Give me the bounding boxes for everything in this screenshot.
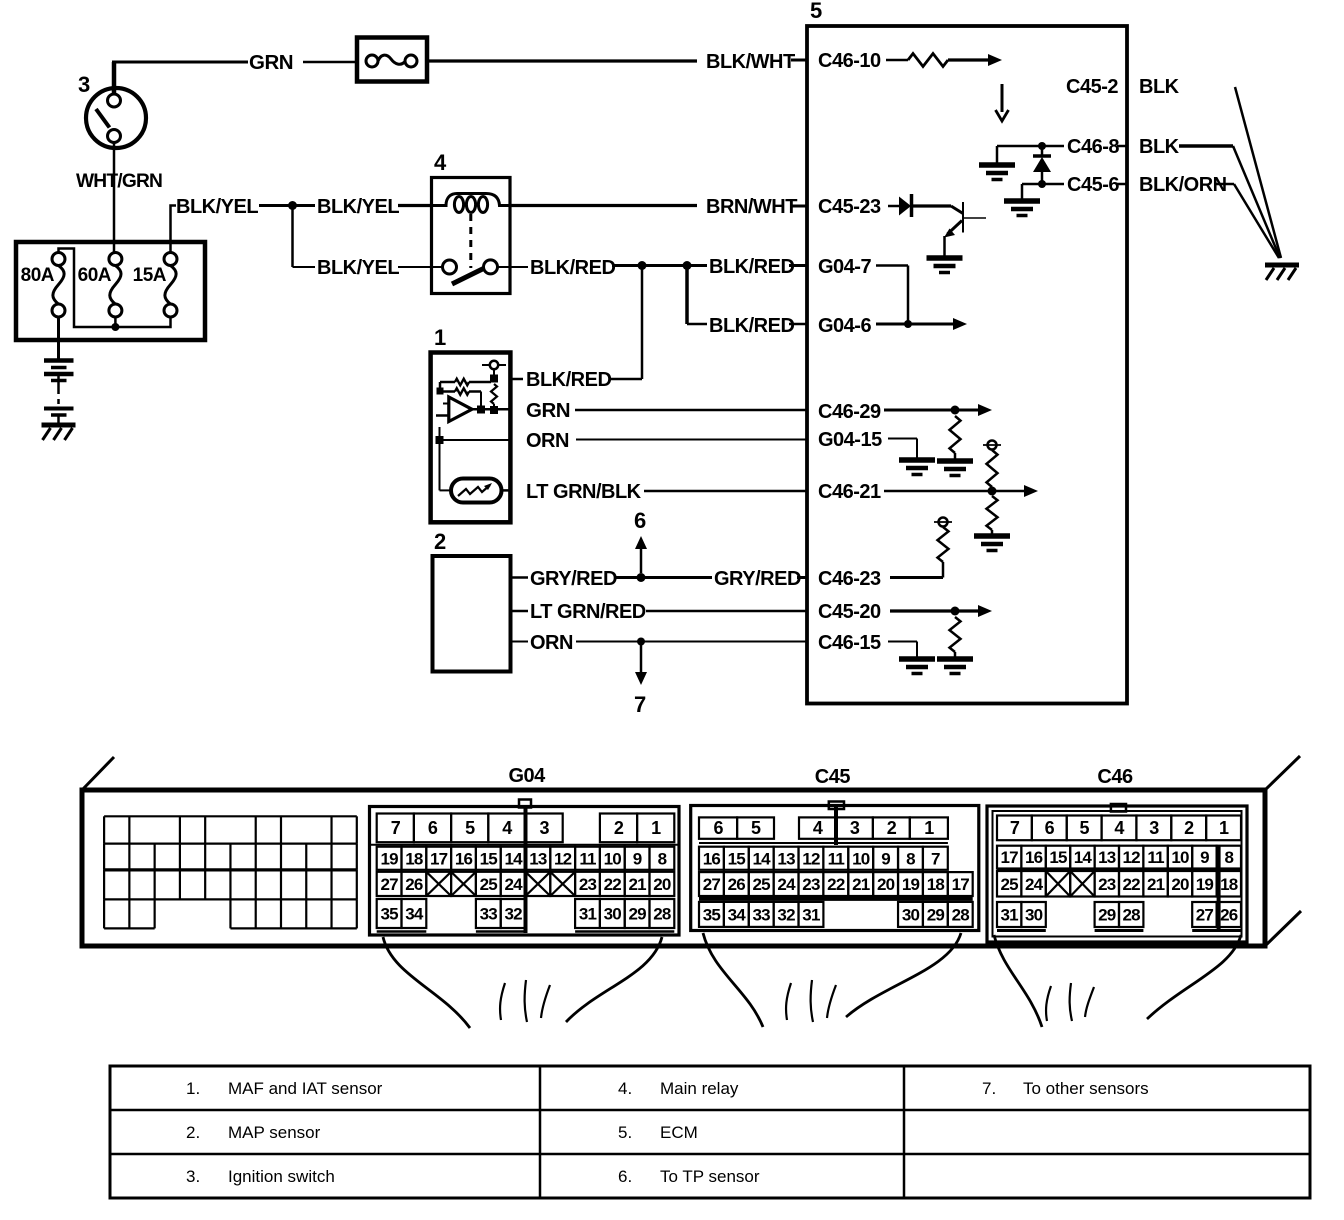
ground under transistor [927, 255, 963, 261]
svg-text:C45-20: C45-20 [818, 601, 881, 623]
svg-text:27: 27 [703, 875, 721, 894]
svg-text:C46-10: C46-10 [818, 50, 881, 72]
svg-text:13: 13 [777, 849, 795, 868]
housing corner bottom-right [1265, 911, 1301, 946]
ground below battery [42, 423, 76, 428]
svg-text:22: 22 [604, 875, 622, 894]
wire GRN to fuse [303, 61, 357, 64]
svg-text:C46-29: C46-29 [818, 401, 881, 423]
svg-text:BLK/RED: BLK/RED [709, 256, 794, 278]
svg-text:17: 17 [430, 849, 448, 868]
svg-text:25: 25 [753, 875, 771, 894]
svg-text:7: 7 [391, 818, 401, 838]
svg-text:15: 15 [480, 849, 498, 868]
svg-text:19: 19 [1196, 875, 1214, 894]
MAF internal supply node [490, 375, 498, 383]
svg-text:30: 30 [1025, 906, 1043, 925]
transistor Q1 [951, 206, 963, 214]
wire to junction [259, 204, 290, 207]
G04 keying rib [524, 807, 528, 933]
MAF hot-wire element [451, 479, 502, 503]
svg-text:7: 7 [1010, 818, 1020, 838]
housing corner top-right [1265, 756, 1300, 790]
C46 row1 cavities [997, 816, 1032, 841]
svg-text:BLK/ORN: BLK/ORN [1139, 174, 1227, 196]
svg-text:21: 21 [628, 875, 646, 894]
svg-text:BLK/WHT: BLK/WHT [706, 51, 795, 73]
svg-text:7: 7 [634, 692, 646, 717]
junction BLK/RED B [683, 261, 692, 270]
wire bundle under C46 [994, 935, 1042, 1027]
resistor R5 [987, 496, 998, 530]
junction GRY/RED [637, 573, 646, 582]
svg-text:28: 28 [653, 905, 671, 924]
svg-text:15A: 15A [133, 265, 167, 286]
svg-text:16: 16 [1025, 848, 1043, 867]
svg-text:1: 1 [651, 818, 661, 838]
svg-text:13: 13 [529, 849, 547, 868]
wire C45-2 diagonal to ground [1235, 87, 1281, 258]
chassis ground right [1265, 263, 1299, 268]
svg-text:G04: G04 [508, 765, 546, 787]
svg-text:15: 15 [1049, 848, 1067, 867]
fuse box [16, 242, 205, 340]
svg-text:5.: 5. [618, 1123, 632, 1142]
svg-text:C46-21: C46-21 [818, 481, 881, 503]
svg-text:23: 23 [579, 875, 597, 894]
svg-text:27: 27 [1196, 906, 1214, 925]
diode D1 [899, 197, 911, 216]
svg-text:28: 28 [952, 905, 970, 924]
svg-text:1.: 1. [186, 1079, 200, 1098]
fuse box internal bus wire [59, 249, 171, 328]
svg-text:ORN: ORN [526, 430, 569, 452]
junction ORN [637, 638, 645, 646]
svg-text:26: 26 [728, 875, 746, 894]
main relay 4 [432, 178, 511, 294]
wire relay coil to ECM BRN/WHT [510, 204, 697, 207]
G04 row3 cavities [377, 872, 402, 896]
svg-text:33: 33 [480, 905, 498, 924]
housing corner top-left [82, 757, 114, 790]
svg-text:4: 4 [502, 818, 512, 838]
MAF internal feedback resistor R1 [440, 381, 455, 384]
svg-text:28: 28 [1123, 906, 1141, 925]
svg-text:3: 3 [1149, 818, 1159, 838]
svg-text:BLK: BLK [1139, 136, 1180, 158]
svg-text:22: 22 [1123, 875, 1141, 894]
svg-text:23: 23 [1098, 875, 1116, 894]
svg-text:13: 13 [1098, 848, 1116, 867]
svg-text:32: 32 [777, 905, 795, 924]
arrow 6 to TP sensor [640, 547, 643, 573]
svg-text:BLK/YEL: BLK/YEL [176, 196, 258, 218]
MAF internal top terminal [482, 364, 506, 366]
svg-text:MAP sensor: MAP sensor [228, 1123, 321, 1142]
svg-text:7: 7 [931, 849, 940, 868]
svg-text:11: 11 [1147, 848, 1164, 867]
svg-text:30: 30 [902, 905, 920, 924]
svg-text:2: 2 [614, 818, 624, 838]
wire BLK/WHT fuse to ECM [427, 59, 697, 62]
C45 row4 cavities [699, 902, 724, 927]
svg-text:10: 10 [604, 849, 622, 868]
C46 row4 cavities [997, 902, 1021, 927]
svg-text:21: 21 [852, 875, 870, 894]
svg-text:22: 22 [827, 875, 845, 894]
svg-text:5: 5 [810, 0, 822, 23]
svg-text:34: 34 [405, 905, 424, 924]
wire junction to relay coil [295, 204, 315, 207]
relay actuator dashed link [469, 214, 472, 268]
svg-text:2.: 2. [186, 1123, 200, 1142]
svg-text:MAF and IAT sensor: MAF and IAT sensor [228, 1079, 383, 1098]
svg-text:Ignition switch: Ignition switch [228, 1167, 335, 1186]
svg-text:10: 10 [1171, 848, 1189, 867]
wire to ECM G04-7 [691, 264, 707, 267]
C45 row3 cavities [699, 872, 724, 896]
svg-text:BLK/YEL: BLK/YEL [317, 196, 399, 218]
svg-text:14: 14 [504, 849, 523, 868]
svg-text:C46-15: C46-15 [818, 632, 881, 654]
left connector grid [103, 816, 105, 843]
svg-text:15: 15 [728, 849, 746, 868]
svg-text:3: 3 [850, 818, 860, 838]
svg-text:30: 30 [604, 905, 622, 924]
svg-text:31: 31 [1001, 906, 1019, 925]
ECM pin C46-8 internal ground [997, 145, 1064, 148]
C46 keying rib [1217, 846, 1221, 929]
C46 row3 cavities [997, 871, 1021, 897]
svg-text:25: 25 [480, 875, 498, 894]
legend table [110, 1066, 1310, 1198]
svg-text:3.: 3. [186, 1167, 200, 1186]
svg-text:9: 9 [881, 849, 890, 868]
svg-text:2: 2 [1184, 818, 1194, 838]
svg-text:20: 20 [1171, 875, 1189, 894]
wire 80A to battery [57, 317, 60, 360]
wire GRY/RED MAP out [511, 576, 529, 579]
svg-text:34: 34 [728, 905, 747, 924]
svg-text:GRN: GRN [526, 399, 570, 422]
svg-text:6: 6 [713, 818, 723, 838]
MAF ORN internal wire [439, 427, 441, 440]
svg-text:17: 17 [952, 875, 970, 894]
ECM connector housing [82, 790, 1265, 946]
svg-text:18: 18 [927, 875, 945, 894]
ECM pin C45-6 internal ground [1022, 183, 1064, 186]
fuse 80A [52, 253, 65, 266]
G04 keying tab [519, 800, 531, 808]
svg-text:To other sensors: To other sensors [1023, 1079, 1149, 1098]
svg-text:11: 11 [579, 849, 596, 868]
svg-text:12: 12 [802, 849, 820, 868]
ECM internal down arrow [1001, 84, 1004, 112]
svg-text:BLK: BLK [1139, 76, 1180, 98]
svg-text:18: 18 [1220, 875, 1238, 894]
svg-text:18: 18 [405, 849, 423, 868]
svg-text:20: 20 [653, 875, 671, 894]
wire bundle under C45 [703, 933, 763, 1027]
svg-text:BLK/RED: BLK/RED [526, 369, 611, 391]
C45 thick separator [699, 896, 973, 901]
svg-text:2: 2 [887, 818, 897, 838]
svg-text:29: 29 [927, 905, 945, 924]
svg-text:32: 32 [504, 905, 522, 924]
svg-text:25: 25 [1001, 875, 1019, 894]
svg-text:5: 5 [751, 818, 761, 838]
junction fuse bus [111, 323, 119, 331]
wire ORN MAP to ECM [511, 641, 529, 643]
svg-text:5: 5 [465, 818, 475, 838]
fuse 15A [164, 253, 177, 266]
MAF op-amp output wire [472, 408, 510, 411]
svg-text:C46-8: C46-8 [1067, 136, 1119, 158]
wire 15A fuse up to BLK/YEL node [171, 206, 177, 253]
svg-text:8: 8 [1224, 848, 1233, 867]
svg-text:GRN: GRN [249, 51, 293, 74]
svg-text:9: 9 [1200, 848, 1209, 867]
svg-text:BRN/WHT: BRN/WHT [706, 196, 797, 218]
svg-text:4.: 4. [618, 1079, 632, 1098]
svg-text:21: 21 [1147, 875, 1165, 894]
resistor R4 with terminal [988, 441, 997, 450]
ignition switch 3 wire to GRN [112, 62, 117, 95]
svg-text:BLK/RED: BLK/RED [709, 315, 794, 337]
zener diode D2 [1041, 146, 1044, 156]
wire BLK to ground [1179, 144, 1233, 148]
C45 row2 cavities [699, 847, 724, 870]
svg-text:8: 8 [658, 849, 667, 868]
C46 thick separator [997, 868, 1241, 872]
battery [44, 358, 74, 363]
wire BLK/RED from relay [498, 266, 529, 268]
svg-text:Main relay: Main relay [660, 1079, 739, 1098]
svg-text:C45: C45 [815, 766, 851, 788]
MAF and IAT sensor 1 box [431, 353, 511, 523]
svg-text:12: 12 [554, 849, 572, 868]
svg-text:23: 23 [802, 875, 820, 894]
wire WHT/GRN switch to fuse box [113, 143, 116, 252]
wire BLK/YEL branch down [291, 206, 294, 268]
C46 row2 cavities [997, 846, 1021, 869]
svg-text:6: 6 [634, 508, 646, 533]
svg-text:2: 2 [434, 529, 446, 554]
ECM 5 box [807, 26, 1127, 704]
svg-text:80A: 80A [21, 265, 55, 286]
resistor R3 [950, 416, 961, 453]
svg-text:WHT/GRN: WHT/GRN [76, 171, 162, 192]
svg-text:27: 27 [380, 875, 398, 894]
svg-text:G04-7: G04-7 [818, 256, 871, 278]
svg-text:33: 33 [753, 905, 771, 924]
svg-text:C45-23: C45-23 [818, 196, 881, 218]
svg-text:ECM: ECM [660, 1123, 698, 1142]
ignition switch 3 [86, 88, 146, 148]
svg-text:16: 16 [455, 849, 473, 868]
svg-text:20: 20 [877, 875, 895, 894]
svg-text:GRY/RED: GRY/RED [714, 568, 801, 590]
relay coil [432, 194, 511, 206]
svg-text:1: 1 [434, 325, 446, 350]
svg-text:3: 3 [539, 818, 549, 838]
svg-text:14: 14 [753, 849, 772, 868]
C45 keying rib [834, 807, 838, 845]
MAF op-amp U1 [449, 397, 472, 422]
svg-text:19: 19 [902, 875, 920, 894]
svg-text:BLK/YEL: BLK/YEL [317, 257, 399, 279]
junction BLK/YEL [288, 201, 297, 210]
svg-text:35: 35 [380, 905, 398, 924]
svg-text:17: 17 [1001, 848, 1019, 867]
svg-text:6: 6 [428, 818, 438, 838]
svg-text:C46: C46 [1097, 766, 1133, 788]
svg-text:24: 24 [1025, 875, 1044, 894]
svg-text:16: 16 [703, 849, 721, 868]
svg-text:60A: 60A [78, 265, 112, 286]
wire branch down to MAF sensor BLK/RED [641, 266, 644, 380]
G04 row4 cavities [377, 899, 402, 928]
svg-text:G04-15: G04-15 [818, 429, 882, 451]
C45 row1 cavities [699, 817, 737, 838]
MAP sensor 2 box [433, 556, 511, 672]
svg-text:9: 9 [633, 849, 642, 868]
wire LT GRN/RED MAP to ECM [511, 610, 529, 613]
svg-text:4: 4 [813, 818, 823, 838]
svg-text:31: 31 [802, 905, 820, 924]
svg-text:19: 19 [380, 849, 398, 868]
svg-text:12: 12 [1123, 848, 1141, 867]
fuse F1 (in-line fuse box) [357, 38, 427, 82]
svg-text:GRY/RED: GRY/RED [530, 568, 617, 590]
svg-text:29: 29 [628, 905, 646, 924]
svg-text:14: 14 [1074, 848, 1093, 867]
C45 keying tab [829, 802, 844, 810]
wire BLK/ORN diagonal to ground [1234, 184, 1279, 258]
svg-text:24: 24 [777, 875, 796, 894]
svg-text:To TP sensor: To TP sensor [660, 1167, 760, 1186]
svg-text:4: 4 [434, 150, 447, 175]
svg-text:3: 3 [78, 72, 90, 97]
wire bundle under G04 [383, 937, 470, 1028]
resistor R6 with terminal [939, 518, 948, 527]
svg-text:26: 26 [1220, 906, 1238, 925]
svg-text:LT GRN/BLK: LT GRN/BLK [526, 481, 642, 503]
svg-text:5: 5 [1080, 818, 1090, 838]
svg-text:31: 31 [579, 905, 597, 924]
svg-text:BLK/RED: BLK/RED [530, 257, 615, 279]
svg-text:ORN: ORN [530, 632, 573, 654]
resistor R7 [950, 617, 961, 652]
svg-text:35: 35 [703, 905, 721, 924]
arrow 7 to other sensors [640, 645, 643, 672]
fuse 60A [109, 253, 122, 266]
svg-text:8: 8 [906, 849, 915, 868]
svg-text:10: 10 [852, 849, 870, 868]
svg-text:7.: 7. [982, 1079, 996, 1098]
wire to relay switch [398, 266, 442, 268]
svg-text:24: 24 [504, 875, 523, 894]
svg-text:C46-23: C46-23 [818, 568, 881, 590]
G04 row2 cavities [377, 847, 402, 870]
wire BLK diagonal to ground [1233, 146, 1280, 258]
svg-text:29: 29 [1098, 906, 1116, 925]
svg-text:26: 26 [405, 875, 423, 894]
svg-text:1: 1 [1219, 818, 1229, 838]
MAF internal feedback resistor R2 [440, 390, 455, 393]
svg-text:11: 11 [828, 849, 845, 868]
svg-text:C45-2: C45-2 [1066, 76, 1118, 98]
G04 row1 cavities [377, 814, 414, 843]
svg-text:C45-6: C45-6 [1067, 174, 1119, 196]
svg-text:LT GRN/RED: LT GRN/RED [530, 601, 646, 623]
junction BLK/RED A [638, 261, 647, 270]
wire branch to G04-6 row [685, 266, 689, 325]
C46 keying tab [1111, 804, 1126, 812]
svg-text:6: 6 [1045, 818, 1055, 838]
svg-text:6.: 6. [618, 1167, 632, 1186]
relay switch contacts [443, 260, 457, 274]
svg-text:1: 1 [924, 818, 934, 838]
svg-text:4: 4 [1114, 818, 1124, 838]
svg-text:G04-6: G04-6 [818, 315, 871, 337]
